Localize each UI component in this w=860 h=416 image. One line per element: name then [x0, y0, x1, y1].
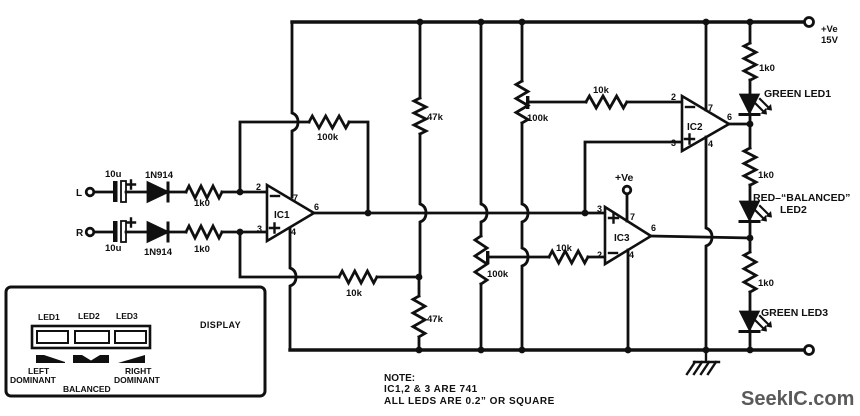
node junction IC3 output [747, 235, 754, 242]
wire top supply rail [292, 20, 805, 23]
wire 100k to IC1 output [349, 122, 368, 213]
wire 1k0 to LED3 [749, 292, 752, 312]
LED D3 GREEN LED1 [741, 95, 758, 112]
svg-text:7: 7 [630, 212, 635, 222]
resistor R9 1k0 [744, 43, 756, 80]
svg-text:47k: 47k [427, 112, 444, 123]
wire 10k to IC3 pin 2 [588, 256, 605, 259]
node +Ve 15V terminal [805, 18, 814, 27]
svg-text:SeekIC.com: SeekIC.com [741, 388, 854, 410]
node 0V terminal [805, 346, 814, 355]
svg-text:IC3: IC3 [614, 233, 630, 244]
svg-text:LED3: LED3 [116, 311, 138, 321]
wire LED chain from top rail [749, 22, 752, 43]
svg-text:1k0: 1k0 [758, 278, 774, 289]
resistor R4 10k feedback [339, 271, 377, 283]
wire capacitor to diode [126, 231, 148, 234]
svg-text:4: 4 [708, 139, 713, 149]
svg-text:3: 3 [597, 204, 602, 214]
wire LED2 to IC3 output node [749, 221, 752, 252]
svg-text:7: 7 [293, 193, 298, 203]
wire resistor to IC1 pin 3 [222, 231, 267, 234]
wire IC3 pin 4 to 0V rail [627, 250, 630, 350]
svg-text:IC1: IC1 [274, 210, 290, 221]
wire diode to resistor [170, 191, 186, 194]
diode D2 1N914 [148, 223, 167, 241]
wire 47k chain from top rail [419, 22, 422, 98]
wire 10k to 47k divider node [377, 276, 419, 279]
svg-text:1k0: 1k0 [194, 198, 210, 209]
wire lower pot chain from top rail, jogs over IC1 output [481, 22, 487, 236]
resistor R1 1k0 [186, 186, 222, 198]
op-amp IC2 [682, 96, 729, 151]
svg-text:10u: 10u [105, 243, 122, 254]
op-amp IC3 [605, 207, 651, 264]
svg-text:2: 2 [597, 250, 602, 260]
svg-text:7: 7 [708, 103, 713, 113]
potentiometer VR2 100k [516, 81, 528, 123]
wire capacitor to diode [126, 191, 148, 194]
wire 10k to IC2 pin 2 [627, 101, 682, 104]
wire resistor to IC1 pin 2 [222, 191, 267, 194]
wire 47k chain jogs over IC1 output [420, 134, 426, 277]
svg-text:DISPLAY: DISPLAY [200, 320, 241, 330]
resistor R8 10k [549, 251, 588, 263]
svg-text:LED1: LED1 [38, 312, 60, 322]
svg-text:ALL LEDS ARE 0.2” OR SQUARE: ALL LEDS ARE 0.2” OR SQUARE [384, 396, 555, 407]
svg-text:LED2: LED2 [780, 204, 807, 216]
resistor R10 1k0 [744, 148, 756, 185]
ground [694, 350, 719, 362]
node junction at IC1 pin 2 [237, 189, 244, 196]
svg-text:6: 6 [651, 223, 656, 233]
LED D4 RED LED2 [741, 202, 758, 219]
display left-dominant wedge [36, 355, 65, 363]
wire feedback from pin 2 node up and right [240, 122, 309, 192]
svg-text:2: 2 [256, 182, 261, 192]
wire lower pot wiper to 10k (jogs handled on vertical) [489, 256, 549, 259]
svg-text:GREEN LED3: GREEN LED3 [761, 307, 828, 319]
wire feedback from pin 3 node down and right [240, 232, 339, 277]
svg-text:3: 3 [257, 224, 262, 234]
svg-text:10k: 10k [593, 85, 610, 96]
svg-text:10u: 10u [105, 169, 122, 180]
svg-text:NOTE:: NOTE: [384, 373, 415, 384]
svg-text:IC1,2 & 3 ARE 741: IC1,2 & 3 ARE 741 [384, 384, 478, 395]
svg-text:+Ve: +Ve [821, 24, 838, 35]
resistor R2 1k0 [186, 226, 222, 238]
svg-text:1N914: 1N914 [145, 170, 174, 181]
svg-text:1N914: 1N914 [144, 247, 173, 258]
svg-text:BALANCED: BALANCED [63, 384, 111, 394]
wire L input to capacitor [94, 191, 114, 194]
display right-dominant wedge [118, 355, 145, 363]
wire 1k0 to LED1 [749, 80, 752, 95]
wire IC2 output to LED chain [729, 123, 750, 126]
resistor R3 100k feedback [309, 116, 349, 128]
svg-text:+Ve: +Ve [615, 172, 634, 184]
op-amp IC1 [267, 185, 314, 241]
resistor R6 47k lower [413, 277, 425, 350]
resistor R5 47k upper [414, 98, 426, 134]
potentiometer VR1 100k [475, 236, 487, 284]
LED D5 GREEN LED3 [741, 312, 758, 329]
wire IC1 output line [314, 212, 605, 215]
wire IC1 output branch up to IC2 pin 3 [585, 142, 682, 213]
wire IC1 pin 4 to 0V rail (jogs over feedback wire) [290, 228, 296, 350]
wire LED1 to IC2 output node [749, 114, 752, 148]
resistor R7 10k [586, 96, 627, 108]
capacitor C1 10u [113, 181, 118, 202]
wire IC2 pin 7 to +Ve rail [705, 22, 708, 110]
wire bottom 0V rail [290, 348, 805, 351]
capacitor C2 10u [113, 221, 118, 242]
node junction at IC1 pin 3 [237, 229, 244, 236]
svg-text:DOMINANT: DOMINANT [114, 375, 161, 385]
svg-text:47k: 47k [427, 314, 444, 325]
svg-text:6: 6 [727, 112, 732, 122]
svg-text:1k0: 1k0 [758, 170, 774, 181]
svg-text:15V: 15V [821, 35, 839, 46]
svg-text:100k: 100k [487, 269, 509, 280]
wire IC3 pin 7 to +Ve terminal [626, 194, 629, 221]
wire diode to resistor [170, 231, 186, 234]
node junction IC2 output [747, 121, 754, 128]
wire IC1 pin 7 to +Ve rail (jogs over feedback wire) [292, 22, 298, 197]
wire upper pot wiper to 10k [529, 101, 586, 104]
svg-text:IC2: IC2 [687, 122, 703, 133]
svg-text:1k0: 1k0 [194, 244, 210, 255]
svg-text:100k: 100k [317, 132, 339, 143]
display box outline [6, 287, 265, 396]
wire LED3 to 0V rail [749, 331, 752, 350]
svg-text:6: 6 [314, 202, 319, 212]
node junction branch on output line [582, 210, 589, 217]
node junction dots on top rail [417, 19, 424, 26]
node junction on IC1 output [365, 210, 372, 217]
display LED1 window [37, 331, 68, 343]
node junction 47k divider [416, 274, 423, 281]
wire R input to capacitor [94, 231, 114, 234]
svg-text:DOMINANT: DOMINANT [10, 375, 57, 385]
display LED2 window [75, 331, 109, 343]
svg-text:1k0: 1k0 [759, 63, 775, 74]
svg-text:2: 2 [671, 92, 676, 102]
svg-text:LED2: LED2 [78, 311, 100, 321]
svg-text:10k: 10k [556, 243, 573, 254]
svg-text:L: L [76, 188, 82, 199]
wire 1k0 to LED2 [749, 185, 752, 202]
svg-text:4: 4 [629, 250, 634, 260]
display LED frame [32, 326, 150, 348]
diode D1 1N914 [148, 183, 167, 201]
resistor R11 1k0 [744, 252, 756, 292]
svg-text:100k: 100k [527, 113, 549, 124]
display LED3 window [115, 331, 146, 343]
svg-text:3: 3 [671, 138, 676, 148]
svg-text:GREEN LED1: GREEN LED1 [764, 88, 831, 100]
wire upper pot chain to 0V rail (jogs over IC1 output and IC3 pin2 wire) [522, 123, 528, 350]
node junction dots on bottom rail [416, 347, 423, 354]
svg-text:RED–“BALANCED”: RED–“BALANCED” [753, 192, 850, 204]
wire upper pot chain from top rail [521, 22, 524, 81]
svg-text:4: 4 [291, 227, 296, 237]
display balanced wedge [73, 355, 109, 363]
svg-text:10k: 10k [346, 288, 363, 299]
wire lower pot to 0V rail [480, 284, 483, 350]
wire IC3 output to LED chain [651, 236, 750, 238]
wire IC2 pin 4 to 0V rail (jogs over IC3 output) [706, 137, 712, 350]
svg-text:R: R [76, 228, 84, 239]
